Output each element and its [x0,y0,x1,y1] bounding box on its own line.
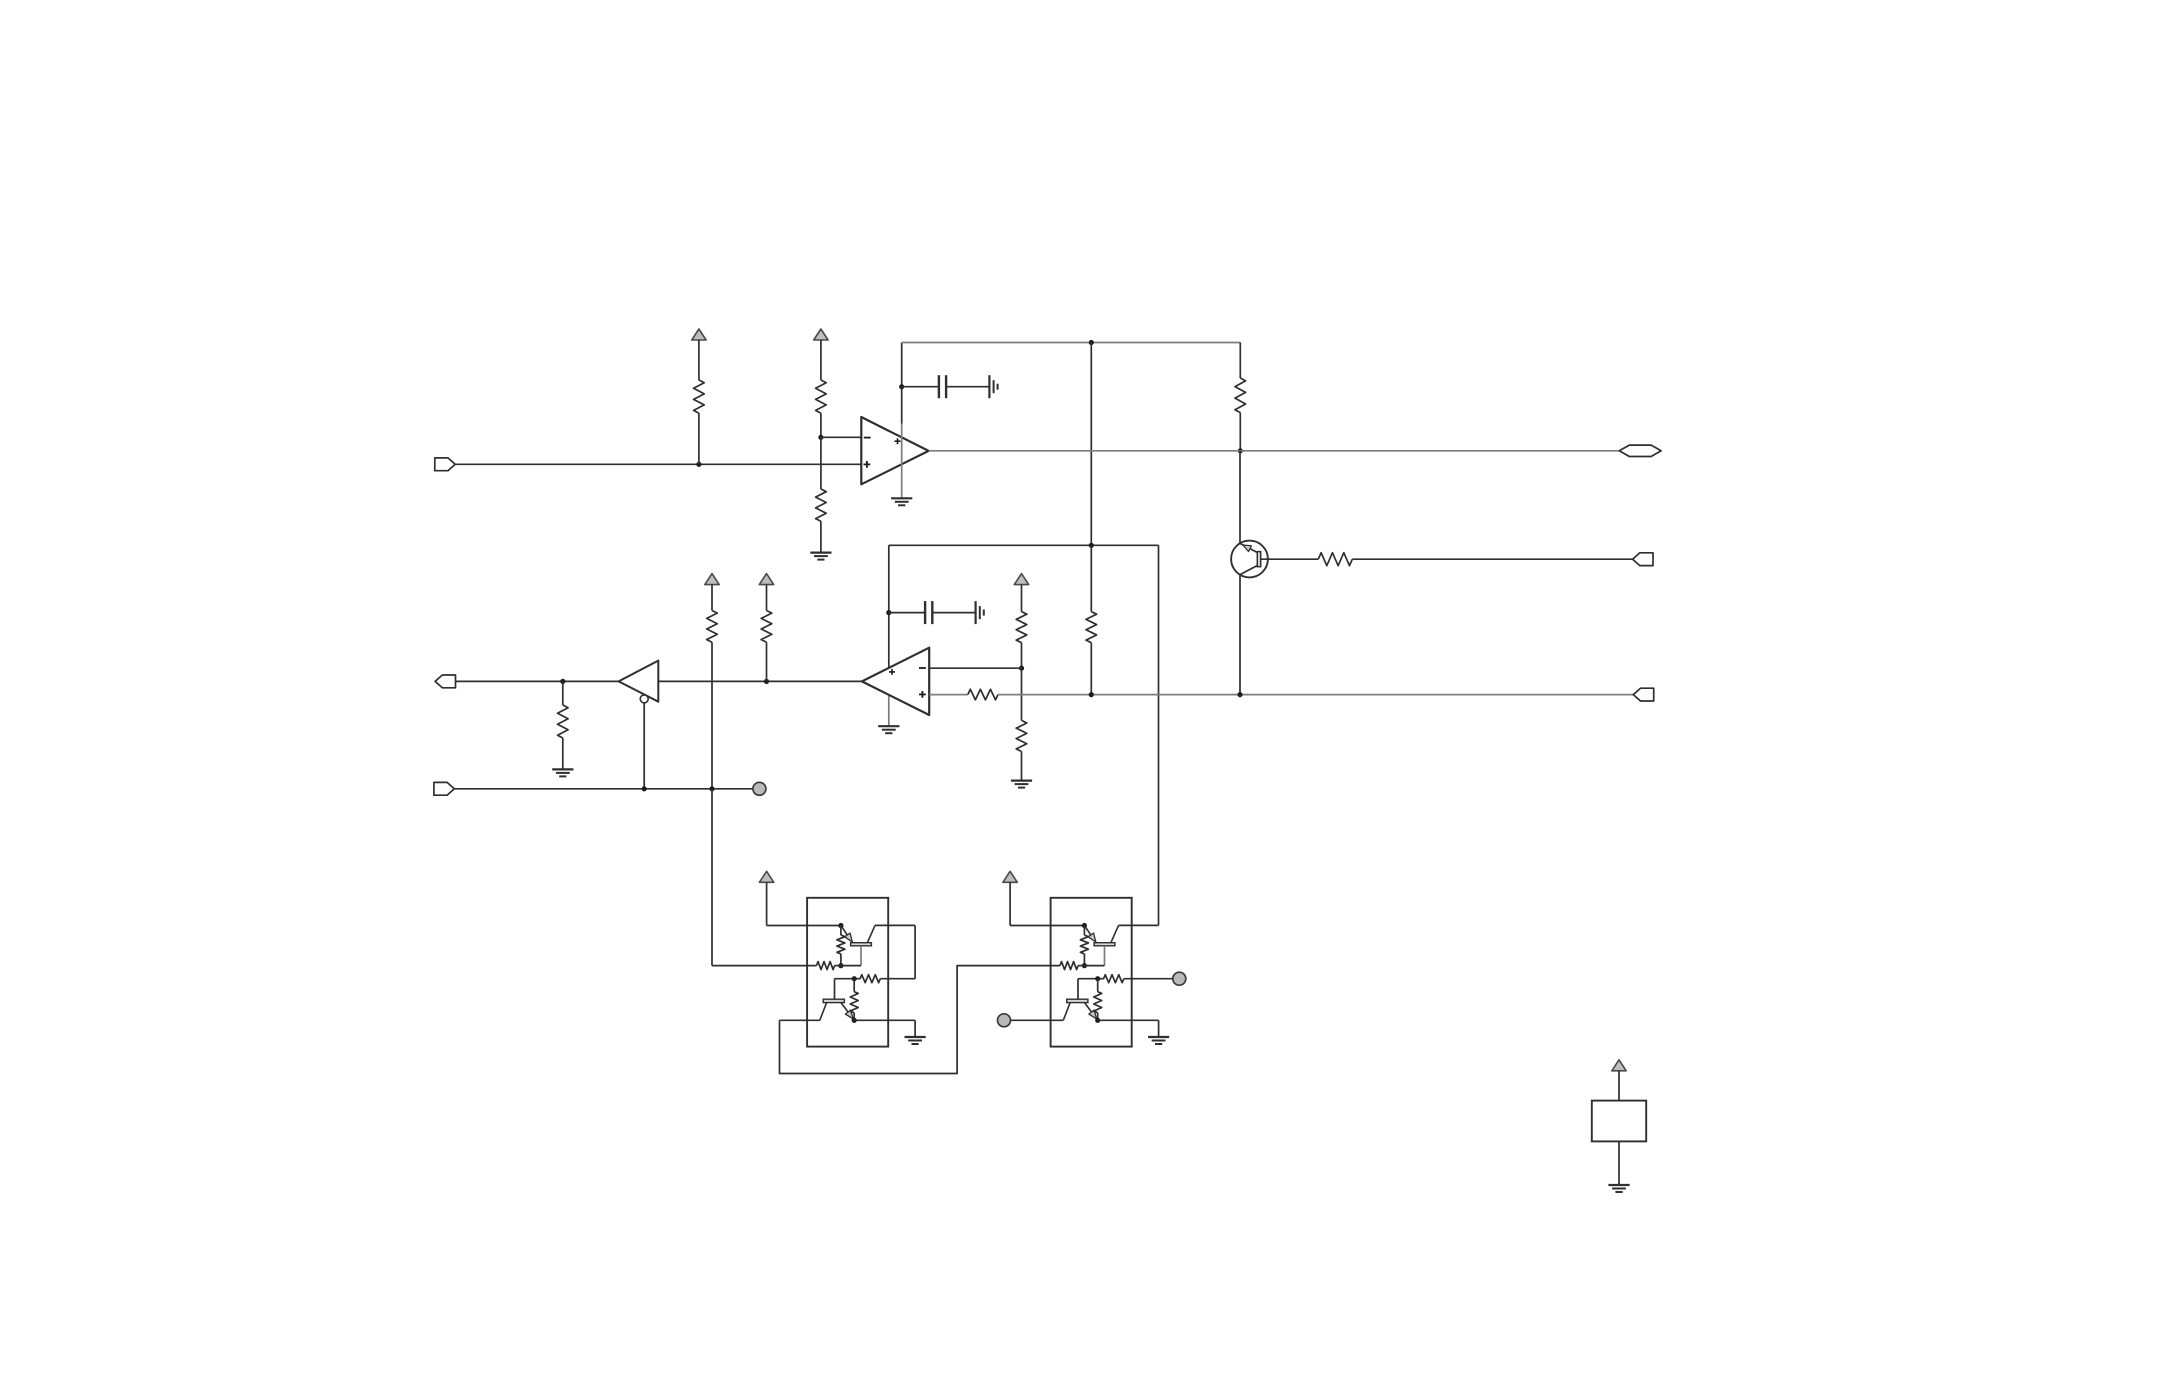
component X1 (box) [1592,1101,1646,1142]
node junction +wire/R6 [1089,692,1094,697]
power VCC arrow above R1 [692,329,706,380]
transistor Q1 body [1231,541,1268,578]
transistor Q1 arrow [1243,545,1252,552]
wire QA emitter to ground [854,1020,915,1037]
power VCC arrow above R2 [814,329,828,380]
transistor QB2 base lead [1077,979,1079,1000]
node terminal INB (grey circle) [998,1014,1011,1027]
wire Q1 emitter down to +input net [1239,575,1241,695]
macro block QB outline [1051,898,1132,1047]
port OUT2 (left, pointing left) [435,675,455,688]
wire -input to op-amp U1 [821,436,861,438]
resistor R11 (VCC chain) [707,611,718,643]
transistor QB1 collector lead [1111,925,1119,942]
node junction +wire/Q1 emitter [1237,692,1242,697]
wire U2 +input stub [929,694,968,696]
transistor QA2 arrow [845,1010,853,1019]
transistor QB1 base bar [1094,943,1115,946]
transistor QA1 collector lead [867,925,875,942]
resistor R3 (-input node to ground) [816,489,827,553]
op-amp U2 (pointing left) [862,648,929,715]
op-amp U1 [861,417,928,484]
transistor QA1 emitter lead [841,926,853,943]
transistor QA2 base lead [834,979,836,1000]
op-amp U1 supply pin wire [901,343,903,424]
transistor Q1 emitter lead [1240,566,1257,575]
capacitor C1 right lead [946,386,989,388]
transistor QB1 emitter lead [1084,926,1096,943]
ground for block QB [1148,1037,1169,1044]
wire R5 to port INM [1352,558,1632,560]
ground below R3 [810,553,831,560]
power VCC arrow for block QA [759,871,773,925]
node junction buffer net/R12 [764,679,769,684]
node junction QB emitter [1095,1018,1100,1023]
node junction rail2/vertical [1089,543,1094,548]
power VCC arrow above R11 [705,574,719,611]
wire VCC into block QB [1010,925,1084,927]
buffer U3 (tri-state, pointing left) [619,661,659,702]
node junction QA lower-left [852,976,857,981]
resistor QB-r2 (horizontal) [1104,975,1124,983]
op-amp U2 minus label [919,667,926,669]
resistor R8 (-input node to ground) [1016,668,1027,780]
wire QA2 collector out to link [780,1019,820,1021]
vertical wire rail2 to Q-block B collector [1158,545,1160,925]
resistor R1 (VCC to +input) [694,380,705,464]
node junction QA emitter [852,1018,857,1023]
resistor QB-rin (input, horizontal) [1060,962,1084,970]
resistor R7 (VCC to -input of U2) [1016,612,1027,669]
wire QA1 collector elbow [875,925,915,978]
resistor R4 (rail to output) [1235,378,1246,451]
node terminal OUTB (grey circle) [1173,972,1186,985]
wire QB lower net to node OUTB [1124,978,1173,980]
resistor QA-rb (base-collector) [837,926,845,966]
port INP (right, pointing left) [1633,688,1653,701]
rotated ground at C2 [976,601,984,624]
wire R11 down to EN net and block A [711,642,713,789]
port IN1 (left input) [435,458,455,471]
ground below op-amp U1 [891,498,912,505]
node junction U2 supply/C2 [886,610,891,615]
node junction block QB top [1082,923,1087,928]
wire lower net QA [835,978,861,980]
node junction U2 -input [1019,666,1024,671]
op-amp U1 power pin label [895,438,901,444]
port EN (lower left input) [434,782,454,795]
ground for block QA [905,1037,926,1044]
transistor QA1 arrow [845,933,853,942]
op-amp U2 plus label [919,691,926,698]
transistor QA2 base bar [823,999,844,1002]
node junction IN1/R1 [696,462,701,467]
port INM (right, pointing left) [1633,553,1653,566]
wire output node to Q1 collector [1239,451,1241,544]
wire port OUT2 to buffer [456,680,619,682]
node junction block QA top [838,923,843,928]
wire EN net [454,788,753,790]
feedback rail wire (top) [902,342,1241,344]
transistor QA2 emitter lead [841,1003,854,1021]
wire link block A to block B input [780,966,1061,1074]
node terminal EN (grey circle) [753,782,766,795]
resistor R9 (U2 +input, horizontal) [968,689,998,700]
op-amp U1 supply pin through symbol to ground [901,424,903,499]
wire QB1 collector up to rail2 vertical [1119,924,1159,926]
node junction R10 [560,679,565,684]
capacitor C2 [925,601,932,624]
transistor QB2 collector lead [1063,1003,1070,1021]
op-amp U2 supply pin through symbol to ground [888,668,890,726]
node junction block QA base [838,963,843,968]
resistor QB-rb (base-collector) [1080,926,1088,966]
power VCC arrow for block QB [1003,871,1017,925]
vertical wire rail1 to rail2 [1090,343,1092,546]
transistor QB1 arrow [1088,933,1096,942]
power VCC arrow above R7 [1014,574,1028,612]
transistor QB2 base bar [1067,999,1088,1002]
resistor R6 (rail2 vertical to +wire) [1086,545,1097,694]
node junction rail1/vertical [1089,340,1094,345]
wire Q1 base to resistor R5 [1261,558,1319,560]
resistor QA-rin (input, horizontal) [817,962,841,970]
transistor Q1 collector lead [1240,543,1257,552]
wire base node to stub QA [841,965,861,967]
rotated ground at C1 [989,375,997,398]
resistor R12 (VCC to buffer net) [761,611,772,682]
wire R2/R3 chain crossing [820,437,822,489]
ground below R10 [552,769,573,776]
wire VCC into block QA [767,925,841,927]
capacitor C2 right lead [932,612,975,614]
transistor QB2 emitter lead [1085,1003,1098,1021]
ground below X1 [1608,1185,1629,1192]
wire X1 to ground [1618,1141,1620,1185]
resistor QA-r2 (horizontal) [860,975,880,983]
node junction QB lower-left [1095,976,1100,981]
wire buffer input to U2 output [658,680,862,682]
op-amp U2 power pin label [889,669,895,675]
wire lower net QB [1078,978,1104,980]
power VCC arrow above R12 [759,574,773,611]
node junction EN/R11 chain [709,786,714,791]
capacitor C1 [939,375,946,398]
ground below op-amp U2 [878,726,899,733]
wire IN1 to op-amp U1 +input [455,463,861,465]
resistor QA-r3 (vertical) [850,979,858,1021]
wire +input net to port INP [998,694,1633,696]
node junction EN/bubble wire [642,786,647,791]
transistor Q1 base bar [1257,552,1260,567]
node junction block QB base [1082,963,1087,968]
node junction R4/output wire [1238,448,1243,453]
capacitor C2 left lead [889,612,925,614]
resistor R2 (VCC to -input node) [816,380,827,437]
wire QB emitter to ground [1098,1020,1159,1037]
transistor QA2 collector lead [820,1003,827,1021]
port OUT (hexagon) [1619,445,1661,456]
resistor R5 (base, horizontal) [1318,553,1352,566]
op-amp U1 plus label [864,461,871,468]
wire U2 -input [929,667,1021,669]
node junction -input [818,435,823,440]
op-amp U1 minus label [864,437,871,439]
wire U1 output to port OUT [929,450,1620,452]
transistor QB1 base stub [1104,946,1106,966]
macro block QA outline [807,898,888,1047]
wire QB2 collector to node INB [1011,1019,1064,1021]
transistor QB2 arrow [1089,1010,1097,1019]
transistor QA1 base bar [851,943,872,946]
op-amp U2 supply pin wire [888,545,890,668]
ground below R8 [1011,781,1032,788]
feedback rail wire 2 [889,544,1159,546]
power VCC arrow above X1 [1612,1060,1626,1101]
resistor R10 (to ground) [558,681,569,769]
resistor QB-r3 (vertical) [1094,979,1102,1021]
transistor QA1 base stub [860,946,862,966]
wire base node to stub QB [1084,965,1104,967]
node junction U1 supply/C1 [899,384,904,389]
wire R11 chain down to block A input [712,789,817,966]
capacitor C1 left lead [902,386,939,388]
wire enable bubble to EN net [643,703,645,789]
buffer U3 enable bubble [640,695,648,703]
resistor R4 top stub [1239,343,1241,379]
